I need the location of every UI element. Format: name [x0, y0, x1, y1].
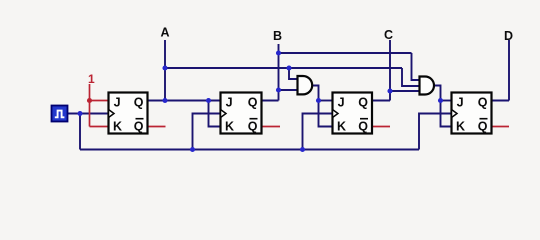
- junction J2/K2 split: [206, 98, 211, 103]
- svg-text:K: K: [225, 120, 234, 134]
- wire constant-1 vertical bracket: [89, 84, 91, 127]
- svg-text:B: B: [273, 29, 282, 43]
- wire AND1 output to J3/K3: [312, 86, 332, 127]
- wire net A: tap into AND1 top input: [289, 68, 298, 79]
- svg-text:Q: Q: [358, 120, 368, 134]
- svg-text:A: A: [160, 26, 169, 40]
- svg-text:C: C: [384, 28, 393, 42]
- AND gate U5 (A AND B): [298, 76, 313, 94]
- wire Q2-bar stub: [262, 126, 281, 128]
- svg-text:D: D: [504, 29, 513, 43]
- svg-text:1: 1: [88, 72, 95, 86]
- svg-text:J: J: [457, 95, 464, 109]
- wire net A: vertical to label A: [164, 40, 166, 101]
- svg-text:K: K: [113, 120, 122, 134]
- wire constant-1 to K1: [90, 126, 109, 128]
- svg-text:Q: Q: [358, 95, 368, 109]
- wire net A: Q1 to J2: [148, 100, 221, 102]
- JK flip-flop U2: [221, 93, 262, 134]
- junction J4/K4 split: [438, 98, 443, 103]
- wire net A: drop into AND2 middle input: [402, 68, 420, 86]
- junction A vertical base: [162, 98, 167, 103]
- wire net B: horizontal distribution: [279, 52, 412, 54]
- junction constant-1 to J1 (red): [87, 98, 92, 103]
- clock generator G1 (pulse source): [52, 106, 68, 122]
- junction rail to FF2 riser: [190, 147, 195, 152]
- wire net D: Q4 to vertical: [492, 100, 510, 102]
- wire net D: vertical to label D: [508, 40, 510, 101]
- svg-text:Q: Q: [248, 120, 258, 134]
- svg-text:Q: Q: [478, 95, 488, 109]
- wire CLK riser to FF2: [193, 114, 221, 150]
- junction rail to FF3 riser: [300, 147, 305, 152]
- svg-text:Q: Q: [248, 95, 258, 109]
- wire AND2 output to J4/K4: [434, 86, 452, 127]
- junction B distribution start: [276, 50, 281, 55]
- wire net C: vertical to label C: [389, 40, 391, 101]
- svg-text:J: J: [114, 95, 121, 109]
- wire CLK drop to bottom rail: [79, 114, 81, 150]
- svg-text:J: J: [338, 95, 345, 109]
- JK flip-flop U1: [109, 93, 148, 134]
- junction J3/K3 split: [316, 98, 321, 103]
- junction A tap on distribution line: [162, 65, 167, 70]
- wire net B: drop into AND2 top input: [412, 53, 420, 80]
- svg-text:Q: Q: [134, 120, 144, 134]
- svg-text:K: K: [456, 120, 465, 134]
- wire net B: Q2 to vertical: [262, 100, 279, 102]
- AND gate U6 (A AND B AND C): [420, 77, 435, 95]
- JK flip-flop U3: [333, 93, 373, 134]
- wire net B: tap into AND1 bottom input: [279, 89, 298, 91]
- wire net C: Q3 to vertical: [372, 100, 390, 102]
- JK flip-flop U4: [452, 93, 492, 134]
- svg-text:K: K: [337, 120, 346, 134]
- svg-text:J: J: [226, 95, 233, 109]
- wire Q1-bar stub: [148, 126, 166, 128]
- wire net A: horizontal distribution: [165, 67, 402, 69]
- svg-text:Q: Q: [134, 95, 144, 109]
- wire AND2 output branch to J4: [441, 100, 452, 102]
- wire Q3-bar stub: [372, 126, 390, 128]
- wire CLK: generator to FF1 clock: [68, 113, 109, 115]
- junction A tap to AND1: [286, 65, 291, 70]
- svg-text:Q: Q: [478, 120, 488, 134]
- wire CLK bottom rail: [80, 149, 419, 151]
- wire net B: vertical to label B: [278, 44, 280, 101]
- wire Q4-bar stub: [492, 126, 510, 128]
- junction B tap to AND1: [276, 87, 281, 92]
- junction C tap to AND2: [387, 88, 392, 93]
- wire AND1 output branch to J3: [319, 100, 333, 102]
- junction CLK split: [77, 111, 82, 116]
- wire net A: branch J2 to K2: [209, 101, 221, 127]
- wire CLK riser to FF4: [419, 114, 452, 150]
- wire CLK riser to FF3: [303, 114, 333, 150]
- wire constant-1 to J1: [90, 100, 109, 102]
- wire net C: tap into AND2 bottom input: [390, 90, 420, 92]
